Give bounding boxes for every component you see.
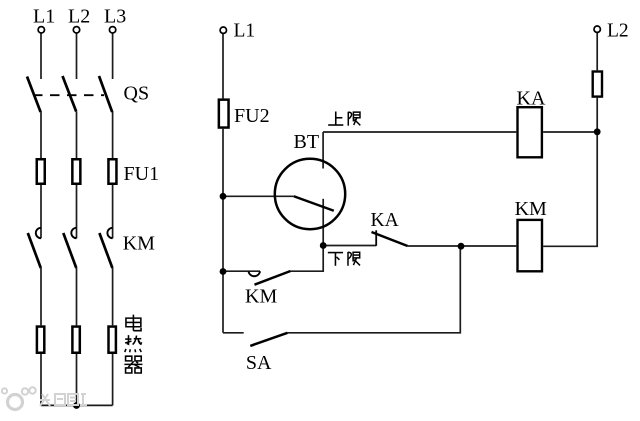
wire L3 phase drop (112, 33, 114, 79)
switch QS pole2 blade (63, 76, 77, 112)
wire bottom joining bus (41, 404, 113, 406)
svg-text:FU2: FU2 (234, 105, 270, 127)
wire right bus fuse to KM corner (543, 98, 597, 247)
wire L2 phase drop (76, 33, 78, 79)
wire KA coil to right bus (543, 131, 597, 133)
wire heater to bottom bus pole3 (112, 354, 114, 405)
wire BT upper electrode (322, 132, 324, 169)
svg-text:KM: KM (123, 233, 155, 255)
svg-text:L3: L3 (104, 6, 126, 28)
wire heater to bottom bus pole2 (76, 354, 78, 405)
fuse FU1 pole2 (72, 159, 80, 184)
svg-text:FU1: FU1 (124, 163, 160, 185)
wire KM to heater pole1 (40, 268, 42, 325)
svg-text:SA: SA (246, 352, 272, 374)
relay coil KA (518, 107, 542, 157)
wire QS to FU1 pole1 (40, 112, 42, 159)
heater element pole3 (109, 327, 116, 353)
svg-text:L1: L1 (33, 6, 55, 28)
wire QS to FU1 pole2 (76, 112, 78, 159)
wire SA to right riser (288, 246, 461, 332)
heater element pole1 (37, 327, 44, 353)
thermometer BT pointer (294, 196, 334, 211)
thermometer BT bulb (275, 159, 345, 229)
switch SA blade (250, 333, 287, 346)
svg-text:KM: KM (515, 198, 547, 220)
QS linkage dashed line (33, 94, 104, 96)
svg-text:L2: L2 (68, 6, 90, 28)
svg-text:KA: KA (517, 88, 546, 110)
fuse FU1 pole3 (108, 159, 116, 184)
wire L1 terminal to FU2 (222, 33, 224, 98)
label 下限 (lower limit) (328, 253, 343, 266)
wire L2 terminal to right fuse (596, 32, 598, 70)
terminal L2 (control) (594, 26, 600, 32)
svg-text:QS: QS (124, 83, 150, 105)
contactor KM aux contact arc (249, 271, 261, 276)
wire KM aux row to left bus (223, 270, 260, 272)
wire KM to heater pole3 (112, 268, 114, 325)
contactor coil KM (518, 220, 543, 271)
contactor KM pole3 fixed-contact arc (107, 228, 112, 238)
label 上限 (upper limit) (328, 111, 343, 125)
contactor KM pole2 blade (63, 233, 76, 268)
fuse FU1 pole1 (37, 159, 45, 184)
wire upper-limit row to KA coil (323, 131, 516, 133)
wire node down to KM aux row (291, 246, 324, 272)
contactor KM aux contact blade (255, 271, 291, 285)
wire left bus FU2 down to SA corner (222, 129, 224, 333)
terminal L3 (109, 27, 115, 33)
svg-text:L1: L1 (234, 20, 256, 41)
wire lower-limit node to KA contact (323, 245, 376, 247)
terminal L1 (control) (220, 27, 226, 33)
fuse FU2 (219, 100, 229, 128)
relay contact KA riser (375, 230, 377, 246)
wire FU1 to KM pole3 (112, 185, 114, 238)
node junction right bus / KA coil (594, 128, 601, 135)
terminal L1 (38, 27, 44, 33)
node junction left bus / KM aux (220, 268, 227, 275)
heater element pole2 (72, 327, 79, 353)
wire L1 phase drop (40, 33, 42, 79)
wire QS to FU1 pole3 (112, 112, 114, 159)
node junction left bus / BT (220, 193, 227, 200)
wire KA contact to KM coil (408, 245, 517, 247)
switch QS pole1 blade (27, 77, 41, 113)
wire KM to heater pole2 (76, 268, 78, 325)
svg-text:KM: KM (245, 286, 277, 308)
wire node to BT bulb (223, 195, 294, 197)
wire FU1 to KM pole1 (40, 185, 42, 238)
wire SA row stub (223, 332, 244, 334)
svg-text:BT: BT (294, 131, 320, 153)
contactor KM pole1 fixed-contact arc (36, 228, 41, 238)
terminal L2 (73, 27, 79, 33)
node junction KM coil / SA (458, 243, 465, 250)
contactor KM pole2 fixed-contact arc (71, 228, 76, 238)
wire FU1 to KM pole2 (76, 185, 78, 238)
label 电热器 (electric heater) (126, 315, 141, 331)
contactor KM pole3 blade (99, 233, 112, 268)
fuse FU3 right unlabeled (593, 72, 602, 97)
junction bottom bus (73, 402, 80, 409)
contactor KM pole1 blade (28, 233, 41, 268)
svg-text:KA: KA (371, 210, 399, 231)
wire heater to bottom bus pole1 (40, 354, 42, 405)
svg-text:L2: L2 (607, 20, 629, 41)
wire BT lower electrode to node (322, 199, 324, 246)
relay contact KA blade (372, 232, 408, 246)
node junction lower-limit (320, 242, 327, 249)
watermark logo (2, 387, 87, 409)
switch QS pole3 blade (99, 76, 112, 112)
